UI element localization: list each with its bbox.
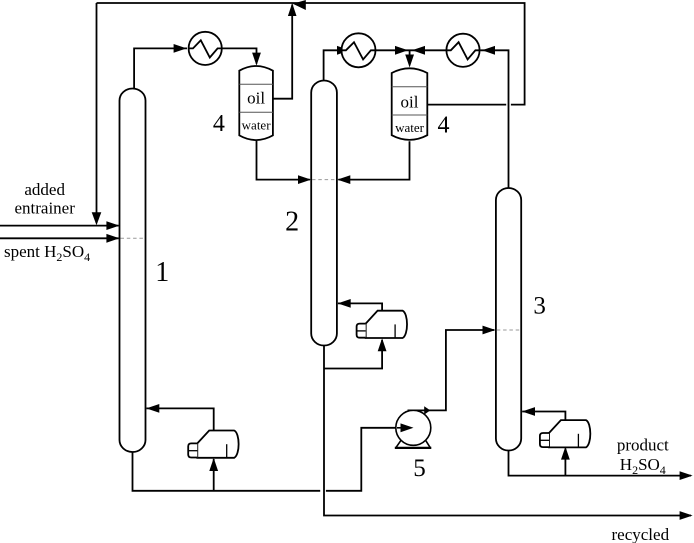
svg-text:water: water [242, 118, 272, 133]
column 3 [496, 188, 521, 451]
svg-text:H2SO4: H2SO4 [620, 455, 666, 477]
arrow: HX2 outlet to junction (right) [395, 46, 408, 55]
wire: added entrainer feed line [0, 225, 119, 227]
arrow: recycled outlet (right) [680, 511, 693, 520]
pump P5 [395, 410, 432, 448]
wire: spent H2SO4 feed line [0, 237, 119, 239]
separator 4b divider oil level [392, 86, 428, 88]
wire: entrainer recycle top header [97, 3, 525, 105]
svg-text:spent H2SO4: spent H2SO4 [4, 242, 90, 264]
wire: reboiler 3 return to column 3 [522, 412, 565, 421]
wire: reboiler 1 return to column 1 [147, 408, 214, 430]
arrow: column 1 overhead into HX1 [174, 44, 187, 53]
wire: column 2 bottoms to recycled line [324, 345, 691, 516]
arrow: added entrainer into column 1 [106, 221, 119, 230]
wire: reboiler 2 return to column 2 [338, 303, 382, 310]
arrow: HX1 outlet into separator 4a [252, 53, 261, 66]
svg-text:4: 4 [213, 111, 225, 137]
separator 4a divider oil level [239, 83, 273, 85]
reboiler E3 (column 3) [540, 420, 590, 447]
wire: separator 4a water to column 2 [257, 141, 310, 180]
svg-text:water: water [395, 120, 425, 135]
wire: reboiler 3 feed branch [564, 449, 566, 476]
separator 4a vessel [239, 66, 273, 140]
arrow: 4b water into column 2 (left) [337, 175, 350, 184]
feed tray dashed line column 3 [497, 329, 521, 331]
column 1 [120, 89, 146, 453]
arrow: junction down into separator 4b [405, 55, 414, 68]
wire: separator 4b water to column 2 [338, 141, 409, 179]
wire: HX2 outlet to junction to HX3 [376, 49, 447, 51]
svg-text:recycled: recycled [612, 525, 670, 543]
heat exchanger HX1 [189, 32, 222, 65]
arrow: spent H2SO4 into column 1 [106, 234, 119, 243]
wire: HX outlet to separator 4a [222, 48, 257, 63]
arrow: product H2SO4 outlet (right) [680, 471, 693, 480]
separator 4b divider water level [392, 114, 428, 116]
column 2 [311, 81, 337, 346]
feed tray dashed line column 2 [312, 179, 336, 181]
arrow: reboiler 1 feed (up) [209, 458, 218, 471]
arrow: feed into column 3 (right) [483, 326, 496, 335]
arrow: entrainer recycle down onto feed line [92, 212, 102, 225]
arrow: recycle into top header (up) [288, 3, 297, 16]
wire: entrainer recycle left drop [96, 3, 98, 223]
reboiler E2 (column 2) [357, 311, 407, 338]
arrow: pump inlet (right) [401, 423, 414, 432]
wire: pump outlet riser to column 3 feed [408, 330, 495, 410]
svg-text:5: 5 [413, 455, 426, 482]
svg-text:2: 2 [285, 206, 299, 237]
arrow: reboiler 3 return into column 3 (left) [522, 407, 535, 416]
wire: reboiler 1 feed riser [213, 459, 215, 491]
arrow: reboiler 3 feed (up) [561, 447, 570, 460]
arrow: top header flow (left) [293, 0, 306, 10]
svg-text:4: 4 [438, 112, 450, 138]
svg-text:oil: oil [247, 89, 265, 108]
svg-text:oil: oil [401, 92, 419, 111]
arrow: reboiler 2 feed (up) [378, 338, 387, 351]
wire: column 3 overhead to HX3 [481, 50, 509, 189]
wire: junction down into separator 4b [409, 50, 411, 64]
feed tray dashed line column 1 [121, 237, 145, 239]
heat exchanger HX2 [342, 33, 376, 67]
arrow: column 2 overhead into HX2 (tip under circle) [337, 46, 350, 55]
arrow: HX3 outlet to junction (left) [412, 46, 425, 55]
arrow: reboiler 2 return into column 2 (left) [338, 299, 351, 308]
svg-text:product: product [617, 435, 669, 454]
arrow: reboiler 1 return into column 1 (left) [146, 404, 159, 413]
arrow: 4a water into column 2 [298, 175, 311, 184]
svg-text:3: 3 [533, 293, 546, 320]
separator 4b vessel [392, 68, 428, 140]
svg-text:added: added [24, 180, 65, 199]
wire: separator 4a oil up to top header [273, 5, 292, 99]
heat exchanger HX3 [446, 34, 479, 67]
wire: column 1 overhead to HX [134, 48, 187, 89]
wire: column 3 bottoms to product line [509, 450, 692, 476]
separator 4a divider water level [239, 111, 273, 113]
svg-text:1: 1 [155, 257, 169, 288]
arrow: pump outlet (right, stubby) [424, 406, 430, 414]
wire: reboiler 2 feed branch [324, 340, 382, 369]
wire: column 1 bottoms header to pump inlet [133, 428, 402, 491]
svg-text:entrainer: entrainer [14, 198, 75, 217]
reboiler E1 (column 1) [188, 431, 238, 458]
wire: column 2 overhead to HX [324, 50, 340, 81]
arrow: column 3 overhead into HX3 (left) [482, 46, 495, 55]
